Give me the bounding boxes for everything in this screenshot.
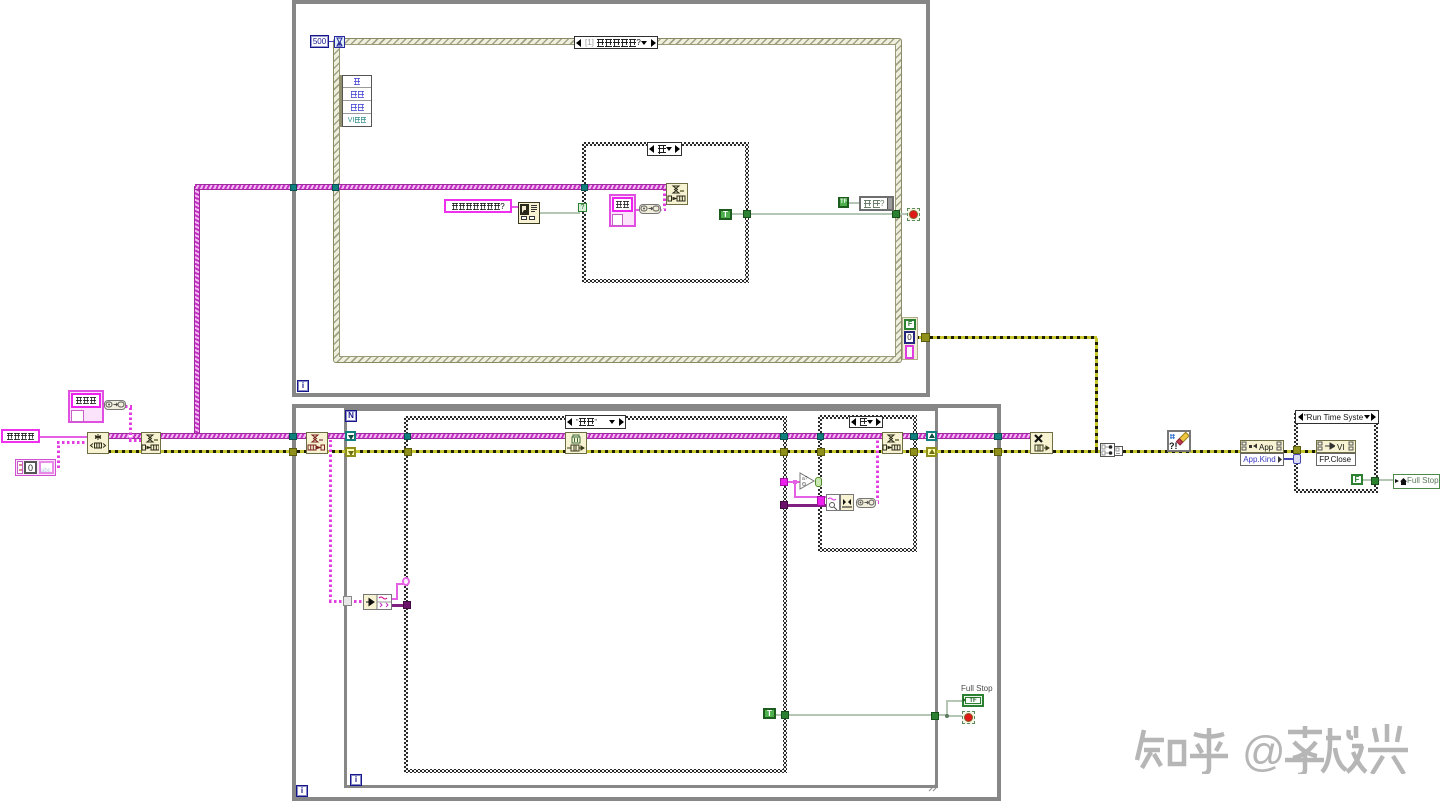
wire: variant-to-data out up to tunnel: [390, 598, 398, 600]
wire: True constant to Full Stop and loop stop: [775, 714, 947, 716]
case True label 真: [647, 142, 682, 156]
to-variant conversion icon (init): [104, 400, 126, 410]
merge errors node: [1100, 443, 1115, 457]
wire: queue refnum vertical trunk: [195, 186, 199, 437]
wire: True constant to loop stop terminal: [730, 213, 909, 215]
case structure C1 (真): [582, 142, 749, 283]
wire: dialog boolean to case selector: [539, 212, 580, 214]
boolean constant T (case 退出 bottom): [763, 708, 776, 719]
wire: init variant down to enqueue: [129, 406, 132, 440]
tunnel: selector into case RTS (blue): [1293, 454, 1301, 464]
event timeout terminal icon: [334, 36, 345, 48]
string functions group (case 假): [826, 494, 840, 511]
wire: queue refnum main bottom run: [108, 434, 1031, 438]
wire: F constant to Full Stop local: [1362, 479, 1394, 481]
wire: App.Kind to case selector: [1283, 458, 1296, 460]
enqueue element icon (case 假): [882, 432, 903, 454]
while loop stop terminal (top): [907, 208, 920, 221]
error cluster constant (F/0/string): [902, 317, 918, 360]
while loop stop terminal (bottom): [962, 711, 975, 724]
to-variant conversion icon: [639, 204, 661, 214]
wire: dequeued element down: [329, 440, 332, 602]
wire: string into comparison: [787, 481, 801, 483]
tunnel: queue wire / case True left: [581, 184, 588, 191]
while loop W2 (bottom): [292, 404, 1001, 801]
App property node: [1240, 440, 1284, 466]
wire: error cluster out of top loop: [916, 336, 1097, 339]
wire: timeout 500 to event timeout terminal: [326, 41, 334, 42]
flush queue icon (in case 退出): [565, 432, 587, 454]
tunnel: error wire / case 退出 left: [404, 448, 412, 456]
tunnel: queue wire / case 退出 right: [780, 433, 788, 440]
Full Stop local variable (right): [1393, 474, 1440, 489]
tunnel: comparison result into 假 border: [815, 477, 822, 487]
wire: variant vertical up to enqueue 2: [876, 440, 879, 503]
tunnel: string out of variant-to-data (ring): [402, 577, 410, 586]
tunnel: queue wire / case 退出 left: [404, 433, 411, 440]
release queue icon (X): [1030, 432, 1053, 454]
Full Stop boolean local variable terminal: [962, 694, 984, 707]
while loop W1 (top): [292, 0, 930, 397]
iteration terminal i (bottom while loop): [296, 785, 308, 797]
wire: cluster to conversion node: [634, 209, 640, 211]
wire: array constant up to Obtain Queue: [57, 442, 60, 468]
tunnel: boolean through event right border: [892, 210, 900, 218]
tunnel: violet / case 退出 right: [780, 501, 788, 509]
obtain queue icon: [87, 432, 109, 454]
tunnel: queue indexing for-loop right: [926, 431, 937, 441]
watermark 知乎 @李欣兴: [1130, 716, 1430, 774]
boolean constant F (case RTS): [1351, 474, 1363, 485]
string control 指令序列: [1, 429, 40, 443]
tunnel: error wire / case 假 left: [817, 448, 825, 456]
tunnel: error cluster out of top loop: [921, 333, 930, 342]
event structure E1: [333, 38, 902, 363]
tunnel: type string violet square: [403, 601, 411, 609]
tunnel: error into case RTS: [1293, 446, 1301, 454]
case 假 label: [849, 416, 883, 428]
wire: init enum to conversion: [99, 405, 105, 407]
tunnel: queue wire / case 假 right: [910, 433, 918, 440]
tunnel: error wire / case 退出 right: [780, 448, 788, 456]
wire: error cluster vertical down to merge: [1095, 338, 1098, 450]
array constant 0: [15, 459, 56, 476]
svg-text:?!: ?!: [1169, 441, 1178, 450]
wire: variant vertical up to enqueue element input: [663, 190, 666, 211]
string constant 确定要退出程序?: [444, 199, 512, 213]
tunnel: queue wire / bottom loop right: [994, 433, 1002, 440]
resize grip for loop corner: [928, 779, 938, 789]
tunnel: dialog selector on case True: [578, 203, 587, 212]
case structure C2 (退出): [404, 416, 787, 773]
boolean constant T (case True): [719, 209, 732, 220]
loop count terminal N: [345, 410, 357, 422]
VI property node (FP.Close): [1316, 440, 1356, 466]
iteration terminal i (for loop): [350, 774, 362, 786]
case Run Time System label: [1295, 410, 1379, 424]
empty string comparison triangle: [799, 472, 816, 490]
tunnel: boolean out of case 退出: [781, 711, 789, 719]
tunnel: queue wire / event structure left: [332, 184, 339, 191]
tunnel: queue wire / bottom loop left: [289, 433, 297, 440]
tunnel: queue wire / top loop left: [290, 184, 297, 191]
tunnel: string bright / case 假 left: [817, 496, 825, 506]
to-variant conversion icon (case 假): [856, 498, 876, 508]
for loop F1: [344, 408, 938, 788]
wire: string constant to dialog: [510, 206, 519, 208]
tunnel: boolean out of case True: [743, 210, 751, 218]
wire: string branch down/right into 假 case: [794, 481, 796, 497]
variant to data icon: [363, 594, 392, 610]
wire: queue refnum top horizontal run into event structure: [195, 185, 667, 189]
tunnel: error indexing for-loop left: [345, 447, 356, 457]
dequeue element icon: [306, 432, 328, 454]
case structure C4 (Run Time System): [1294, 411, 1378, 493]
Full Stop label text: [961, 684, 1001, 694]
enqueue element icon (init): [141, 432, 161, 454]
case 退出 label: [565, 415, 626, 429]
gray tunnel on for-loop border (dequeued element): [343, 596, 352, 606]
tunnel: boolean / for-loop right: [931, 712, 939, 720]
svg-text:a?: a?: [802, 476, 808, 482]
wire: string to Obtain Queue: [39, 436, 88, 438]
event structure label [1] 前面板关闭?: [574, 36, 658, 49]
wire: type string dark violet to tunnel: [390, 604, 406, 607]
tunnel: error wire / case 假 right: [910, 448, 918, 456]
svg-text:@: @: [1242, 728, 1286, 774]
tunnel: string / case 退出 right (bright): [780, 478, 788, 486]
tunnel: error wire / bottom loop right: [994, 448, 1002, 456]
simple error handler icon: [1167, 430, 1191, 452]
boolean control TF icon 放弃?: [838, 197, 849, 208]
wire: discard? terminal link: [848, 202, 860, 204]
iteration terminal i (top loop): [297, 380, 309, 392]
cluster constant 退出: [609, 194, 636, 227]
wire: error cluster main bottom run: [108, 450, 1316, 453]
tunnel: error indexing for-loop right: [926, 447, 937, 457]
two-button dialog function icon: [518, 202, 540, 224]
event data node (源/类型/时间/VI引用): [339, 75, 372, 127]
tunnel: F boolean out of case RTS: [1371, 477, 1379, 485]
tunnel: error wire / bottom loop left: [289, 448, 297, 456]
tunnel: queue indexing for-loop left: [345, 431, 356, 441]
constant 500 (timeout): [310, 35, 329, 48]
wire: type string dark violet into 假 case: [787, 504, 827, 507]
enqueue element icon (in case True): [666, 183, 688, 205]
enum constant 初始化: [68, 390, 104, 423]
label 放弃?: [859, 196, 894, 211]
case structure C3 (假): [818, 415, 917, 552]
tunnel: queue wire / case 假 left: [817, 433, 824, 440]
